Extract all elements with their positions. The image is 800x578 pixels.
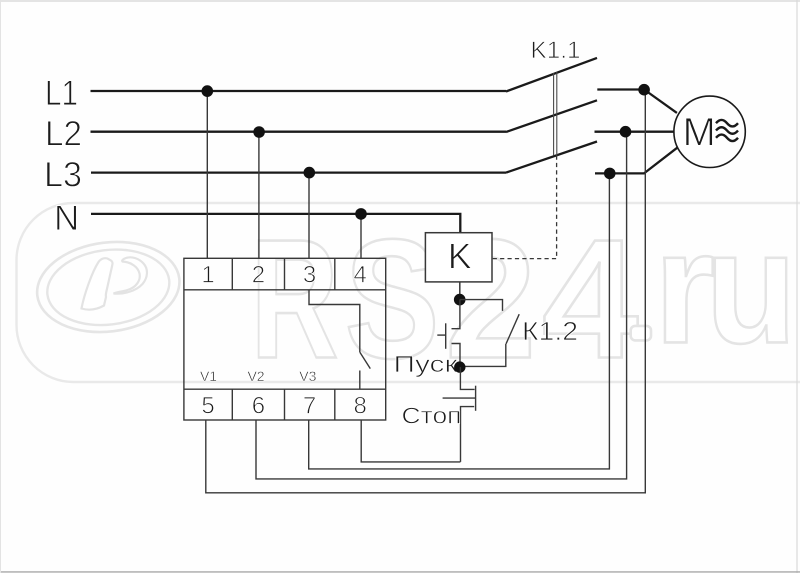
wire drop L2 to terminal 2	[258, 132, 260, 258]
internal relay contact lower lead to terminal 8	[359, 371, 361, 390]
wire coil K bottom to node A	[459, 282, 461, 295]
motor triple tilde wave 2	[716, 127, 738, 134]
svg-text:N: N	[54, 199, 79, 238]
node dot L3 tap	[304, 167, 316, 179]
wire drop N to terminal 4	[360, 214, 362, 258]
terminal bottom strip dividers	[232, 389, 334, 420]
svg-text:V2: V2	[247, 368, 264, 384]
wire node A to start button	[452, 300, 460, 329]
page border left	[0, 0, 2, 573]
node dot L3 output	[604, 168, 616, 180]
start button SB1 lower lead	[452, 344, 461, 368]
wire node B to stop button	[460, 367, 474, 389]
page border bottom	[0, 571, 800, 573]
motor triple tilde wave 1	[716, 120, 738, 127]
terminal top strip dividers	[232, 258, 334, 290]
wire terminal 8 to stop button	[361, 420, 460, 462]
node dot L1 tap	[202, 85, 214, 97]
wire drop L3 to terminal 3	[308, 173, 310, 259]
stop button SB2 lower lead	[461, 407, 475, 462]
wire phase L1	[91, 90, 507, 92]
motor M circle	[674, 96, 745, 167]
node A junction dot	[454, 294, 466, 306]
wire terminal 6 bus to L2 output	[256, 132, 627, 479]
wire L2 output to motor	[595, 131, 675, 133]
svg-text:L2: L2	[45, 115, 82, 154]
node B junction dot	[454, 361, 465, 372]
watermark logo outer ellipse	[32, 234, 185, 340]
svg-text:V1: V1	[200, 368, 217, 384]
watermark dot	[631, 326, 651, 341]
contact K1.1 pole 3 blade	[506, 142, 597, 173]
terminal block outline	[184, 258, 386, 420]
watermark pill border	[17, 203, 800, 382]
node dot L1 output	[638, 84, 650, 96]
node dot L2 tap	[253, 126, 265, 138]
watermark logo inner ellipse	[43, 243, 174, 332]
svg-text:K: K	[448, 235, 472, 276]
contact K1.2 lower lead to node B	[460, 344, 506, 367]
svg-text:Пуск: Пуск	[394, 351, 459, 377]
wire L1 output to motor	[597, 90, 677, 113]
terminal block bottom strip top edge	[184, 388, 386, 390]
page border right	[796, 0, 798, 573]
page border top	[0, 0, 800, 2]
node dot N tap	[355, 208, 367, 220]
svg-text:2: 2	[252, 262, 265, 289]
svg-text:К1.2: К1.2	[522, 316, 578, 346]
start button SB1 movable bar	[445, 323, 447, 349]
wire phase L3	[91, 171, 506, 173]
contact K1.2 upper lead	[460, 300, 503, 311]
wire terminal 5 bus to L1 output	[206, 90, 646, 493]
stop button SB2 movable bar	[475, 386, 477, 411]
svg-text:M: M	[683, 110, 716, 154]
svg-text:7: 7	[303, 393, 316, 420]
watermark logo crescent glyph	[114, 257, 147, 293]
terminal block top strip bottom edge	[184, 289, 386, 291]
svg-text:4: 4	[354, 262, 367, 289]
wire L3 output to motor	[595, 147, 678, 173]
wire drop L1 to terminal 1	[206, 91, 208, 258]
svg-text:3: 3	[303, 262, 316, 289]
contact K1.1 pole 1 blade	[506, 58, 597, 92]
svg-text:6: 6	[252, 393, 265, 420]
svg-text:Стоп: Стоп	[402, 403, 462, 429]
svg-text:8: 8	[354, 393, 367, 420]
wire terminal 7 bus to L3 output	[309, 173, 610, 469]
stop button SB2 actuator stem	[443, 397, 475, 399]
motor triple tilde wave 3	[716, 135, 738, 142]
wire phase L2	[91, 131, 507, 133]
contact K1.2 blade	[506, 314, 519, 344]
svg-text:1: 1	[201, 262, 214, 289]
wire neutral N to relay coil	[91, 214, 460, 233]
node dot L2 output	[620, 126, 632, 138]
svg-text:K1.1: K1.1	[531, 37, 581, 64]
svg-text:L1: L1	[45, 74, 78, 113]
svg-text:R: R	[251, 205, 339, 395]
dashed link K1.1 to coil K	[492, 156, 557, 259]
start button SB1 actuator stem	[437, 334, 445, 336]
internal relay contact blade	[360, 352, 371, 369]
contact K1.1 pole 2 blade	[506, 100, 597, 132]
relay coil K box	[425, 233, 492, 282]
svg-text:L3: L3	[44, 156, 82, 195]
svg-text:V3: V3	[299, 368, 316, 384]
internal relay contact lead from terminal 3	[309, 290, 360, 352]
svg-text:5: 5	[201, 393, 214, 420]
svg-text:u: u	[706, 197, 797, 376]
watermark logo blade glyph	[82, 258, 113, 309]
contact K1.1 mechanical linkage double line	[554, 72, 557, 156]
